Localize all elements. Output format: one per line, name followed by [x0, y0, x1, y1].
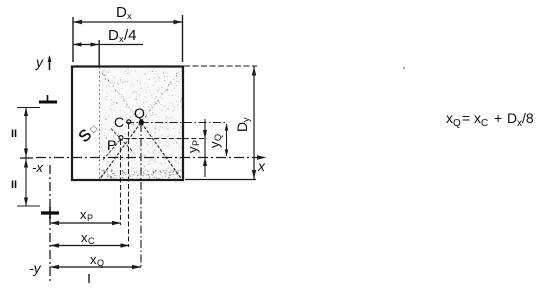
point P: [119, 136, 123, 140]
svg-text:x: x: [474, 110, 481, 126]
svg-text:II: II: [11, 179, 17, 191]
svg-text:D: D: [507, 110, 517, 126]
svg-text:-y: -y: [29, 260, 42, 276]
svg-text:y: y: [241, 117, 251, 122]
vertical through C: [128, 124, 130, 247]
diagonal upper-right: [142, 68, 183, 122]
diagonal lower-left: [100, 123, 141, 179]
small diagonal near P down-right: [111, 129, 133, 153]
S label rotated: [76, 120, 102, 146]
small tick bottom: [88, 274, 90, 283]
Dy dimension: [184, 65, 257, 67]
diagonal lower-right: [142, 123, 182, 179]
svg-text:P: P: [87, 213, 93, 223]
svg-text:=: =: [462, 110, 470, 126]
svg-text:y: y: [207, 141, 222, 148]
vertical through Q: [140, 124, 142, 268]
left equal-distance dimension: [17, 107, 40, 109]
yQ dimension: [226, 124, 228, 156]
svg-text:II: II: [11, 128, 17, 140]
shaded region stipple: [100, 69, 182, 180]
stray dot: [403, 67, 405, 69]
svg-text:-x: -x: [32, 160, 43, 175]
y axis top segment: [49, 57, 51, 70]
svg-text:/8: /8: [522, 110, 534, 126]
Q centerline horizontal: [126, 122, 227, 124]
T symbol bottom: [41, 211, 59, 214]
svg-text:D: D: [108, 27, 119, 44]
svg-text:Q: Q: [134, 105, 145, 121]
xC dimension: [50, 245, 130, 247]
svg-text:P: P: [191, 140, 201, 146]
point Q: [139, 120, 144, 125]
svg-text:x: x: [81, 230, 88, 245]
svg-text:Q: Q: [97, 258, 104, 268]
Dx/4 dimension: [73, 44, 143, 46]
svg-text:C: C: [481, 118, 488, 129]
yP dimension: [204, 119, 206, 177]
Dx dimension: [72, 17, 74, 62]
square outline: [72, 67, 183, 181]
svg-text:y: y: [35, 54, 44, 70]
svg-text:+: +: [494, 110, 502, 126]
shaded region wash: [100, 67, 184, 180]
svg-text:Q: Q: [213, 134, 223, 141]
svg-text:x: x: [257, 158, 266, 174]
inner boundary Dx/4 line: [99, 67, 101, 180]
svg-text:D: D: [234, 122, 250, 132]
diagonal upper-left: [100, 68, 141, 122]
x axis: [36, 157, 263, 159]
svg-text:D: D: [116, 4, 127, 21]
xP dimension: [50, 222, 121, 224]
svg-text:/4: /4: [124, 27, 137, 44]
svg-text:Q: Q: [453, 118, 461, 129]
svg-text:x: x: [80, 207, 87, 222]
T symbol top: [39, 101, 57, 104]
point C: [127, 120, 131, 124]
svg-text:P: P: [107, 137, 116, 153]
svg-text:x: x: [90, 252, 97, 267]
svg-text:y: y: [185, 146, 200, 153]
xQ dimension: [50, 266, 141, 268]
svg-text:C: C: [88, 236, 95, 246]
small diagonal near P down-left: [102, 140, 120, 161]
P level horizontal dashed: [124, 138, 207, 140]
y axis bottom dash-dot: [49, 165, 51, 283]
svg-text:C: C: [114, 114, 124, 130]
svg-text:x: x: [446, 110, 453, 126]
svg-text:x: x: [127, 11, 132, 22]
vertical through P: [120, 140, 122, 225]
